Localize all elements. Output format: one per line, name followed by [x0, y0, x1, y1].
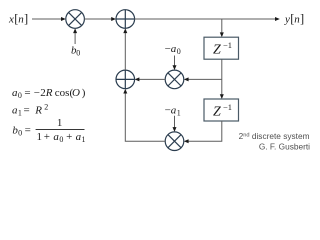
delay block Z2: [204, 99, 239, 121]
svg-text:a0=−2Rcos(O): a0=−2Rcos(O): [12, 87, 86, 100]
adder A1 (top sum): [116, 10, 135, 29]
wire M2 to adder A2: [138, 78, 165, 80]
svg-text:b0: b0: [71, 45, 80, 58]
svg-text:Z: Z: [213, 43, 221, 58]
wire M3 left and up into A2: [125, 92, 165, 141]
svg-text:x[n]: x[n]: [8, 12, 28, 26]
wire branch from output down to Z1: [221, 19, 223, 34]
multiplier M3 (-a1 gain): [165, 132, 184, 151]
delay block Z1: [204, 37, 239, 59]
wire A2 up into A1: [124, 32, 126, 70]
wire M1 to adder A1: [84, 18, 112, 20]
wire -a1 down into M3: [174, 116, 176, 129]
svg-text:−1: −1: [223, 102, 232, 112]
wire b0 up into M1: [74, 32, 76, 44]
adder A2 (middle sum): [116, 70, 135, 89]
svg-text:b0=: b0=: [12, 125, 30, 138]
svg-text:−1: −1: [223, 40, 232, 50]
multiplier M1 (b0 gain): [66, 10, 85, 29]
svg-text:−a0: −a0: [165, 43, 181, 56]
svg-text:1+a0+a1: 1+a0+a1: [37, 131, 86, 144]
wire -a0 down into M2: [174, 56, 176, 67]
svg-text:a1=R2: a1=R2: [12, 103, 48, 118]
svg-text:1: 1: [57, 117, 63, 129]
wire A1 to y[n]: [135, 18, 277, 20]
wire Z1 to Z2: [221, 59, 223, 95]
svg-text:y[n]: y[n]: [284, 12, 304, 26]
wire Z2 down and left to M3: [187, 121, 222, 141]
svg-text:2nd discrete system: 2nd discrete system: [239, 131, 310, 141]
svg-text:G. F. Gusberti: G. F. Gusberti: [259, 141, 310, 151]
wire tap to multiplier M2: [187, 78, 222, 80]
svg-text:Z: Z: [213, 104, 221, 119]
multiplier M2 (-a0 gain): [165, 70, 184, 89]
svg-text:−a1: −a1: [165, 105, 181, 118]
wire x[n] to multiplier M1: [32, 18, 62, 20]
